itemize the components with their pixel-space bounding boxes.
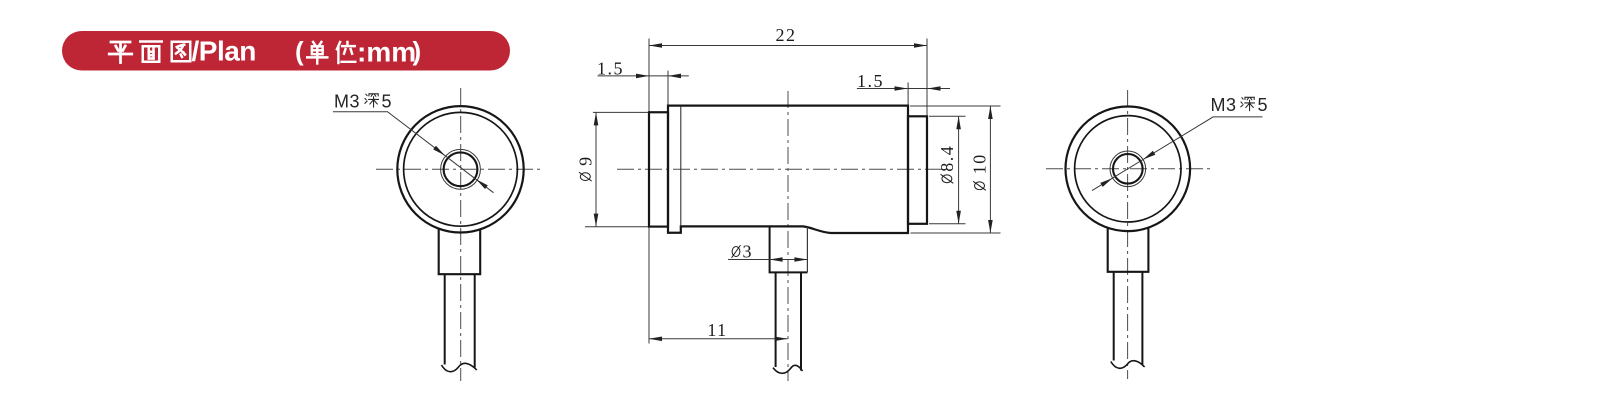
inner edge line xyxy=(680,107,682,226)
dim 1.5 right arrow a xyxy=(895,86,908,91)
cable boot xyxy=(1108,227,1149,271)
dim 1.5 right extension line xyxy=(907,83,909,105)
cable break wave xyxy=(773,365,803,373)
thread ring M3 xyxy=(1110,151,1146,187)
center hole xyxy=(444,152,478,186)
svg-text::mm: :mm xyxy=(357,37,416,68)
horizontal centerline xyxy=(617,168,948,170)
leader arrowhead 2 xyxy=(1100,176,1113,187)
left cap ⌀9 xyxy=(649,112,668,226)
dim 22 line xyxy=(649,45,927,47)
cable vertical centerline xyxy=(787,91,789,381)
svg-text:10: 10 xyxy=(970,153,990,174)
dim 1.5 left extension line xyxy=(667,71,669,105)
dim ⌀9 arrow bottom xyxy=(594,214,599,227)
dim ⌀8.4 text xyxy=(937,145,957,184)
horizontal centerline xyxy=(1046,168,1210,170)
dim ⌀8.4 extension lines xyxy=(929,116,966,224)
dim 11 line xyxy=(649,338,788,340)
dim ⌀9 extension lines xyxy=(585,112,648,226)
cable boot xyxy=(770,226,808,272)
svg-text:3: 3 xyxy=(743,242,754,262)
leader arrowhead 1 xyxy=(433,146,446,158)
dim ⌀10 arrow bottom xyxy=(988,220,993,233)
cable xyxy=(775,272,777,367)
cable xyxy=(1113,272,1115,361)
dim 1.5 left arrow a xyxy=(636,74,649,79)
svg-text:22: 22 xyxy=(776,25,797,45)
leader line xyxy=(333,112,494,193)
svg-text:): ) xyxy=(413,36,422,66)
svg-text:11: 11 xyxy=(707,320,727,340)
svg-text:M3: M3 xyxy=(334,92,360,112)
leader arrowhead 1 xyxy=(1142,151,1155,162)
cable break wave xyxy=(1111,361,1145,369)
cable boot xyxy=(439,228,481,274)
dim ⌀10 extension lines xyxy=(910,106,1001,233)
dim 11 arrow left xyxy=(649,337,662,342)
cable break wave xyxy=(442,363,477,371)
body outline xyxy=(668,106,908,233)
dim 22 arrows xyxy=(649,43,662,48)
svg-text:5: 5 xyxy=(1258,95,1269,115)
dim 1.5 left line xyxy=(598,75,689,77)
dim ⌀9 arrow top xyxy=(594,112,599,125)
dim ⌀8.4 arrow bottom xyxy=(956,211,961,224)
dim 11 arrow right xyxy=(775,337,788,342)
dim 1.5 left arrow b xyxy=(668,74,681,79)
svg-text:M3: M3 xyxy=(1211,95,1237,115)
dim ⌀9 line xyxy=(595,112,597,226)
svg-text:9: 9 xyxy=(576,155,596,166)
banner plate xyxy=(62,31,510,71)
cable xyxy=(444,274,446,364)
dim ⌀9 text xyxy=(576,155,596,181)
outer circle (body ⌀10) xyxy=(397,106,523,232)
svg-text:/Plan: /Plan xyxy=(192,36,256,67)
dim ⌀10 text xyxy=(970,153,990,190)
inner ring (cap ⌀9) xyxy=(404,112,518,226)
dim ⌀3 arrow right xyxy=(794,257,807,262)
outer circle xyxy=(1066,107,1191,232)
vertical centerline xyxy=(1127,90,1129,379)
svg-text:1.5: 1.5 xyxy=(597,59,624,79)
vertical centerline xyxy=(460,88,462,381)
svg-text:(: ( xyxy=(295,36,304,66)
dim ⌀3 line xyxy=(728,259,807,261)
dim ⌀8.4 line xyxy=(958,116,960,224)
dim ⌀10 line xyxy=(989,106,991,233)
svg-text:8.4: 8.4 xyxy=(937,145,957,172)
banner text 平面图 xyxy=(109,42,190,63)
inner ring ⌀8.4 xyxy=(1075,116,1181,222)
dim ⌀10 arrow top xyxy=(988,106,993,119)
dim 1.5 right arrow b xyxy=(928,86,941,91)
dim 11 extension line xyxy=(648,228,650,344)
leader line xyxy=(1092,117,1263,191)
leader arrowhead 2 xyxy=(475,177,488,189)
right cap ⌀8.4 xyxy=(908,116,927,224)
svg-text:5: 5 xyxy=(382,92,393,112)
center hole xyxy=(1113,154,1143,184)
dim ⌀3 arrow left xyxy=(770,257,783,262)
thread ring M3 xyxy=(441,149,481,189)
dim 1.5 right line xyxy=(857,88,950,90)
dim ⌀3 symbol xyxy=(732,245,741,258)
dim ⌀8.4 arrow top xyxy=(956,116,961,129)
svg-text:1.5: 1.5 xyxy=(857,71,884,91)
horizontal centerline xyxy=(376,168,543,170)
dim 22 extension lines xyxy=(649,39,927,117)
